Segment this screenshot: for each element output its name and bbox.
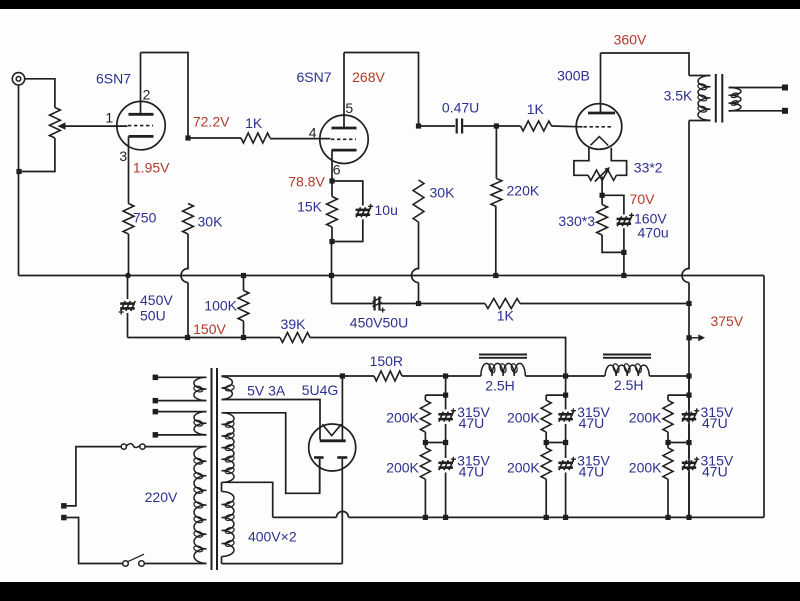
primary tap terminal 4 [153,432,159,438]
label 47U s2a [579,415,605,431]
wire node to coupling cap [419,125,456,127]
junction 70V node [600,193,605,198]
junction 220K ground [493,273,498,278]
junction mid R s1 [423,440,428,445]
pin 4 label V2 [309,124,317,140]
svg-text:200K: 200K [629,460,662,476]
label 200K s2b [507,460,540,476]
junction bottom C s2 [563,515,568,520]
label 220V [145,489,178,505]
wire fuse right to winding [145,446,206,448]
label 200K s1b [386,460,419,476]
label 360V [614,31,647,47]
svg-text:300B: 300B [557,68,590,84]
svg-text:72.2V: 72.2V [193,114,230,130]
label 47U s3a [702,415,728,431]
junction bottom R s1 [423,515,428,520]
150V rail [128,337,281,339]
tube 300B power triode [576,104,622,150]
ground rail [19,275,765,277]
wire 200Ks1b bottom [424,479,426,517]
svg-text:47U: 47U [459,463,485,479]
junction choke1 input [443,373,448,378]
label 6SN7 V2 [296,69,331,85]
primary tap winding A [193,377,206,400]
V1 anode lead up [140,53,142,115]
svg-text:3.5K: 3.5K [664,88,693,104]
wire 200Ks1a hook [425,394,445,396]
label 2.5H choke2 [614,377,644,393]
wire stage2 caps from choke rail [565,376,567,395]
label 33*2 [634,160,663,176]
label 78.8V [288,173,325,189]
junction 78.8V node [329,178,334,183]
hum pot wiper arrow [595,167,610,182]
label 5U4G [302,382,339,398]
junction 375V arrow node [686,335,691,340]
secondary HV upper winding [222,413,235,483]
junction bottom C s1 [443,515,448,520]
junction 268V node [416,123,421,128]
wire 220K bottom to ground rail [495,207,497,276]
primary main winding 220V [193,447,206,564]
wire cap left [332,303,375,305]
label 30K stage2 [430,185,456,201]
svg-text:47U: 47U [702,415,728,431]
wire tap4 [158,434,207,436]
resistor 1K interstage [241,133,270,143]
label 39K [281,316,307,332]
plug pin top [61,503,67,509]
choke L2 2.5H [603,355,651,377]
capacitor 315V 47U s1b [438,443,456,518]
capacitor 315V 47U s2b [558,443,576,518]
svg-text:200K: 200K [386,410,419,426]
wire mid s3 [668,432,689,442]
label 6SN7 V1 [96,71,131,87]
bottom return rail with hop over rectifier lead [273,511,764,517]
svg-text:400V×2: 400V×2 [248,528,297,544]
junction cathode RC bottom [621,250,626,255]
resistor 750 cathode V1 [123,204,134,235]
svg-text:1K: 1K [527,101,545,117]
svg-text:375V: 375V [710,313,743,329]
wire 750 to ground rail [128,234,130,276]
capacitor 315V 47U s3b [682,443,699,518]
svg-text:47U: 47U [459,415,485,431]
resistor 15K cathode V2 [327,197,338,228]
label 200K s2a [507,410,540,426]
wire tap3 [158,411,207,413]
375V output arrow [692,334,706,341]
label 200K s3b [629,460,662,476]
wire stage3 caps from choke rail [688,376,690,395]
filament supply yoke outline [574,148,627,176]
5U4G cathode right lead [341,376,343,440]
svg-text:220V: 220V [145,489,178,505]
junction 220K top [494,123,499,128]
wire 5V bottom to 5U4G [222,400,321,440]
tube V1 6SN7 first triode [117,101,165,149]
wire 200Ks3b bottom [667,479,669,517]
label 300B [557,68,590,84]
primary tap winding B [193,412,206,435]
pin 3 label V1 [119,148,127,164]
secondary 5V winding [222,377,235,400]
label 5V 3A [247,383,286,399]
pin 2 label V1 [143,87,151,103]
primary tap terminal 3 [153,409,159,415]
svg-text:6: 6 [333,162,341,178]
fuse F1 [121,444,145,450]
V1 cathode lead down [128,136,130,203]
resistor 30K stage1 load [183,204,194,235]
resistor 220K grid leak [491,179,502,207]
wire down to ground rail [331,242,333,276]
wire 375V vertical [688,304,690,518]
wire 15K top lead [331,181,333,197]
svg-text:200K: 200K [507,460,540,476]
resistor 200K s2a [541,395,551,432]
label 375V [710,313,743,329]
wire 100K bottom [243,321,245,338]
wire 330*3 bottom [602,235,624,252]
label 72.2V [193,114,230,130]
label 150R [370,353,403,369]
wire mid s1 [425,432,445,442]
junction 72.2V node [185,135,190,140]
label 1.95V [133,160,170,176]
wire cap to 220K node [463,125,496,127]
wire fuse left to plug [67,447,122,506]
capacitor 315V 47U s2a [558,395,576,442]
resistor 200K s2b [541,443,551,480]
svg-text:200K: 200K [629,410,662,426]
wire plug bottom to switch [67,518,123,564]
choke L1 2.5H [479,355,527,377]
label 150V [193,321,226,337]
junction mid C s3 [686,440,691,445]
resistor 200K s3a [663,395,673,432]
svg-text:150R: 150R [370,353,403,369]
wire stage1 caps from choke rail [445,376,447,395]
junction caps2 top [563,393,568,398]
label 200K s3a [629,410,662,426]
label 400Vx2 [248,528,297,544]
svg-text:450V50U: 450V50U [350,315,408,331]
svg-text:100K: 100K [204,298,237,314]
resistor 30K stage2 load [413,180,424,222]
OPT core [716,74,723,123]
junction 100K 150V rail [241,335,246,340]
label 450V [140,292,173,308]
label 220K [507,182,540,198]
resistor 39K [280,333,310,343]
junction choke2 output [686,373,691,378]
svg-text:6SN7: 6SN7 [96,71,131,87]
primary tap terminal 2 [153,398,159,404]
junction 30K to 150V rail [185,335,190,340]
svg-text:30K: 30K [198,214,224,230]
label 47U s1a [459,415,485,431]
wire 300B anode to OPT [601,53,690,76]
svg-text:47U: 47U [702,463,728,479]
junction pot ground [16,169,21,174]
label 15K [297,199,323,215]
svg-text:0.47U: 0.47U [442,100,479,116]
resistor 200K s3b [663,443,673,480]
wire 1K to V2 grid [270,138,331,140]
capacitor 450V50U series [373,297,386,313]
wire ground to decouple cap [331,276,333,304]
svg-text:70V: 70V [630,191,656,207]
capacitor 315V 47U s3a [682,395,699,442]
pin 6 label V2 [333,162,341,178]
wire junction to 150R [342,375,374,377]
PT core [212,368,218,570]
svg-text:360V: 360V [614,31,647,47]
svg-text:2.5H: 2.5H [485,378,515,394]
label 100K [204,298,237,314]
label 330*3 [558,213,595,229]
wire wiper down [601,177,603,196]
junction 300B cathode ground [621,273,626,278]
wire cap down to 150V rail [127,313,129,338]
label 315V s3b [701,452,734,468]
svg-text:2: 2 [143,87,151,103]
label 160V [634,211,667,227]
wire 15K bottom [331,227,333,242]
junction rectifier output [340,373,345,378]
wire 100K top [243,276,245,291]
svg-text:1: 1 [105,110,113,126]
label 10u [375,202,398,218]
svg-text:15K: 15K [297,199,323,215]
label 470u [638,225,669,241]
OPT secondary winding [729,88,783,111]
wire choke2 to 375V line [650,375,690,377]
5U4G right anode lead [341,459,343,564]
junction bottom C s3 [686,515,691,520]
wire pot bottom to ground leg [19,138,55,172]
svg-text:47U: 47U [579,463,605,479]
label 268V [352,69,385,85]
resistor 200K s1b [420,443,430,480]
svg-text:200K: 200K [386,460,419,476]
label 1K grid [527,101,545,117]
svg-text:450V: 450V [140,292,173,308]
svg-text:750: 750 [133,210,157,226]
svg-text:5U4G: 5U4G [302,382,339,398]
junction 30K2 B-node [416,301,421,306]
svg-text:4: 4 [309,124,317,140]
wire mid s2 [546,432,565,442]
svg-text:6SN7: 6SN7 [296,69,331,85]
svg-text:220K: 220K [507,182,540,198]
junction cathode network bottom [329,239,334,244]
wire 220K top lead [495,126,497,179]
label 315V s3a [701,404,734,420]
resistor 150R [374,371,402,381]
junction mid C s1 [443,440,448,445]
junction 100K ground [241,273,246,278]
output terminal bottom [782,108,788,114]
label 47U s2b [579,463,605,479]
wire cap right to 1K [380,303,486,305]
wire V2 anode top rail [344,53,419,127]
plug pin bottom [61,515,67,521]
label 3.5K [664,88,693,104]
svg-text:47U: 47U [579,415,605,431]
label 0.47U [442,100,479,116]
junction caps3 top [686,393,691,398]
junction V2 cathode ground [329,273,334,278]
capacitor 10u bypass [356,204,374,218]
wire node to 1K [188,137,241,139]
label 2.5H choke1 [485,378,515,394]
wire 200Ks2b bottom [545,479,547,517]
switch S1 [123,554,145,566]
wire down to ground rail [623,252,625,275]
wire 10u bottom [332,219,363,241]
junction 375V top [686,301,691,306]
V2 anode lead up [343,53,345,129]
wire node to 470u [602,195,624,214]
junction mid R s3 [665,440,670,445]
input jack J1 [12,73,24,85]
wire 200Ks2a hook [546,394,565,396]
resistor 33*2 hum balance [588,170,616,180]
tube V2 6SN7 second triode [320,115,368,163]
resistor 200K s1a [420,395,430,432]
label 315V s2b [577,452,610,468]
pin 1 label V1 [105,110,113,126]
wire V1 anode top rail [141,53,189,139]
label 1K interstage [245,115,263,131]
label 50U [140,308,166,324]
capacitor 0.47U coupling [457,119,462,134]
wire choke1 to choke2 [525,375,605,377]
wire tap2 [158,400,207,402]
label 47U s3b [702,463,728,479]
primary tap terminal 1 [153,375,159,381]
wire ground rail right side down [763,276,765,518]
wire 200Ks3a hook [668,394,689,396]
wire center tap [222,482,273,517]
wire 1K to 375V node [520,303,689,305]
junction 750 ground (round) [125,273,131,279]
svg-text:33*2: 33*2 [634,160,663,176]
wire 39K to choke node [310,338,566,377]
wire 1K to 300B grid [552,125,583,128]
junction mid C s2 [563,440,568,445]
svg-text:78.8V: 78.8V [288,173,325,189]
svg-text:39K: 39K [281,316,307,332]
junction choke1 output [563,373,568,378]
resistor 100K bleeder [238,291,249,322]
svg-text:5: 5 [345,100,353,116]
resistor 1K 300B grid stopper [521,121,552,131]
label 315V s1b [457,452,490,468]
svg-text:1K: 1K [497,308,515,324]
svg-text:330*3: 330*3 [558,213,595,229]
OPT primary winding [689,76,711,121]
wire node to 1K grid [496,125,520,127]
svg-text:50U: 50U [140,308,166,324]
output terminal top [782,85,788,91]
wire 470u bottom [623,228,625,252]
svg-text:10u: 10u [375,202,398,218]
wire HV top to left anode [222,413,320,494]
capacitor 470u [617,213,635,227]
V2 cathode lead down [331,150,333,181]
svg-text:1K: 1K [245,115,263,131]
wire cathode node to 10u cap [332,181,363,206]
wire 30K2 down to B rail with hop [412,222,419,304]
secondary HV lower winding [222,482,235,563]
svg-text:150V: 150V [193,321,226,337]
wire 5V top to junction [222,375,343,377]
svg-text:470u: 470u [638,225,669,241]
wire 330*3 top [601,195,603,204]
svg-text:268V: 268V [352,69,385,85]
pin 5 label V2 [345,100,353,116]
label 200K s1a [386,410,419,426]
300B anode lead up [600,53,602,113]
capacitor 450V 50U decoupling [119,301,135,315]
potentiometer VR1 volume [50,108,66,139]
svg-text:5V 3A: 5V 3A [247,383,286,399]
junction caps1 top [443,393,448,398]
junction mid R s2 [544,440,549,445]
capacitor 315V 47U s1a [438,395,456,442]
resistor 1K PSU [485,299,520,309]
label 1K psu [497,308,515,324]
wire 30K down with hop over ground rail [181,234,188,338]
label 47U s1b [459,463,485,479]
label 450V50U [350,315,408,331]
label 750 [133,210,157,226]
svg-text:200K: 200K [507,410,540,426]
wire tap1 [158,376,207,378]
svg-text:1.95V: 1.95V [133,160,170,176]
svg-text:3: 3 [119,148,127,164]
label 70V [630,191,656,207]
5U4G left anode lead [319,459,321,494]
wire jack to pot top [25,79,55,108]
wire 150R to choke1 [402,375,481,377]
label 315V s1a [457,404,490,420]
svg-text:2.5H: 2.5H [614,377,644,393]
wire cap top to ground rail [127,276,129,300]
junction bottom R s2 [544,515,549,520]
svg-text:30K: 30K [430,185,456,201]
wire switch to primary bottom [144,563,206,565]
label 30K stage1 [198,214,224,230]
tube 5U4G rectifier [309,424,356,471]
wire pot wiper to V1 grid [66,125,128,127]
junction bottom R s3 [665,515,670,520]
wire HV bottom to right anode [222,563,343,565]
wire OPT primary down with hop over ground rail [682,121,689,304]
label 315V s2a [577,404,610,420]
resistor 330*3 cathode [597,205,608,236]
wire jack ground down left side [18,85,20,276]
